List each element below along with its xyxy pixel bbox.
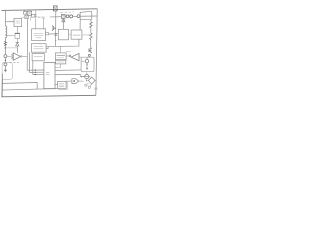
wire V2 bbox=[28, 52, 30, 72]
wire left drop from bus bbox=[6, 10, 15, 21]
wire RS to tag bbox=[66, 80, 72, 83]
wire fuse down to A bbox=[62, 19, 64, 30]
wire stub bus to X1 bbox=[29, 10, 31, 11]
box C2 bbox=[56, 60, 66, 64]
wire V3 bbox=[32, 61, 34, 75]
pin tab M bbox=[46, 46, 48, 48]
terminal circle T3 bbox=[85, 59, 88, 62]
terminal circle T2 bbox=[4, 63, 7, 66]
wire V1 bbox=[26, 19, 28, 70]
box D (MCU) bbox=[44, 62, 55, 88]
wire AC row bbox=[50, 15, 97, 18]
capacitor C1 bbox=[31, 14, 34, 17]
wire U2 right bbox=[79, 56, 81, 58]
box E (top right) bbox=[80, 11, 92, 19]
box L (filter block) bbox=[14, 18, 22, 26]
wire A-B bbox=[69, 33, 72, 35]
rectifier block DB1 bbox=[23, 12, 26, 15]
wire diamond right bbox=[95, 79, 96, 81]
wire stub from bus 2 bbox=[35, 10, 37, 29]
transistor Q1 bbox=[52, 26, 56, 31]
wire E left down bbox=[79, 20, 81, 30]
wire D to RS bbox=[55, 84, 58, 86]
box T (switching power supply) bbox=[32, 29, 46, 41]
meter circle bbox=[85, 75, 89, 79]
diamond DM bbox=[88, 77, 95, 84]
wire bus row 1 bbox=[27, 69, 44, 71]
ground arrow in H bbox=[86, 65, 88, 68]
wire right border bbox=[96, 9, 97, 95]
wire bottom border bbox=[1, 95, 96, 97]
wire bottom row2 bbox=[2, 89, 58, 90]
wire bus row 3 bbox=[33, 73, 44, 75]
wire in H bbox=[86, 57, 88, 59]
source circle S4 bbox=[88, 54, 90, 56]
wire to L2 bbox=[5, 35, 15, 37]
label dashes bbox=[61, 11, 75, 13]
wire D right row2 bbox=[55, 74, 80, 75]
rectifier block DB2 bbox=[25, 15, 28, 18]
box M (control block) bbox=[31, 44, 46, 53]
wire bottom row1 bbox=[2, 83, 37, 90]
wire top bus bbox=[1, 9, 97, 11]
wire H left to T3 bbox=[81, 60, 85, 62]
junction dot bbox=[55, 33, 57, 35]
inductor L1 bbox=[4, 22, 6, 26]
box RS (comm module) bbox=[59, 82, 67, 89]
junction dot bbox=[35, 69, 36, 70]
box B2 (lower block) bbox=[32, 54, 44, 61]
wire L2 down bbox=[16, 38, 18, 42]
wire tag right bbox=[79, 80, 84, 82]
source circle S1 bbox=[66, 15, 69, 18]
wire T1 right bbox=[7, 55, 13, 57]
tag P bbox=[72, 79, 79, 84]
small circle below left bbox=[85, 84, 87, 86]
label dash bbox=[66, 50, 71, 52]
op-amp U1 bbox=[13, 53, 20, 61]
transistor Q2 bbox=[89, 48, 92, 53]
box H enclosure bbox=[81, 57, 94, 71]
arrow below meter bbox=[86, 80, 88, 82]
resistor R2 bbox=[90, 33, 93, 39]
diode D1 bbox=[16, 42, 19, 53]
wire E right down bbox=[90, 19, 92, 21]
pin tab T bbox=[46, 33, 49, 35]
wire M to B bbox=[48, 39, 79, 46]
wire D stub to C2 bbox=[55, 64, 61, 68]
transformer X1 bbox=[27, 11, 32, 15]
wire to meter bbox=[82, 76, 85, 78]
arrow left bbox=[80, 76, 82, 78]
wire cluster left bbox=[22, 16, 25, 18]
wire D right row1 bbox=[55, 69, 81, 71]
box B bbox=[71, 30, 82, 39]
wire stub from bus bbox=[24, 10, 26, 12]
box C1 bbox=[55, 53, 66, 60]
wire stub cluster to T bbox=[29, 17, 31, 21]
fuse F1 bbox=[61, 14, 65, 18]
varistor RV1 bbox=[4, 41, 7, 45]
wire left border lower bbox=[1, 74, 3, 97]
op-amp U2 (points left) bbox=[71, 53, 79, 60]
box on bus X2 bbox=[53, 6, 57, 11]
arrow on wire bbox=[55, 40, 56, 42]
source circle S3 bbox=[77, 15, 80, 18]
wire L-shape near box T bbox=[43, 19, 45, 29]
resistor R1 bbox=[90, 22, 93, 28]
junction dot bbox=[35, 74, 36, 75]
terminal circle T1 bbox=[4, 55, 7, 58]
wire to C1 bbox=[60, 46, 62, 53]
junction dot bbox=[86, 64, 87, 65]
wire diamond bottom links bbox=[87, 83, 92, 86]
wire T to A bbox=[49, 33, 59, 35]
dashed annotation arrow bbox=[10, 62, 19, 64]
wire B right to resistor chain bbox=[82, 34, 90, 36]
wire bus row 2 bbox=[29, 71, 44, 73]
ground arrow bbox=[4, 66, 6, 70]
wire U1 output bbox=[22, 55, 27, 57]
connector under fuse bbox=[62, 20, 65, 22]
dot in tag bbox=[73, 80, 75, 82]
junction dot bbox=[5, 60, 6, 61]
junction dot bbox=[5, 47, 7, 49]
rounded enclosure R1 bbox=[2, 62, 12, 79]
box L2 (small block) bbox=[15, 33, 20, 38]
wire junction right bbox=[5, 47, 17, 49]
wire center drop bbox=[55, 11, 57, 46]
junction dot bbox=[35, 72, 36, 73]
small circle below right bbox=[88, 86, 90, 88]
source circle S2 bbox=[70, 15, 73, 18]
connector on right border bbox=[95, 88, 97, 90]
wire L to L2 bbox=[16, 27, 18, 34]
box A bbox=[58, 29, 68, 40]
label AC bbox=[38, 16, 45, 18]
